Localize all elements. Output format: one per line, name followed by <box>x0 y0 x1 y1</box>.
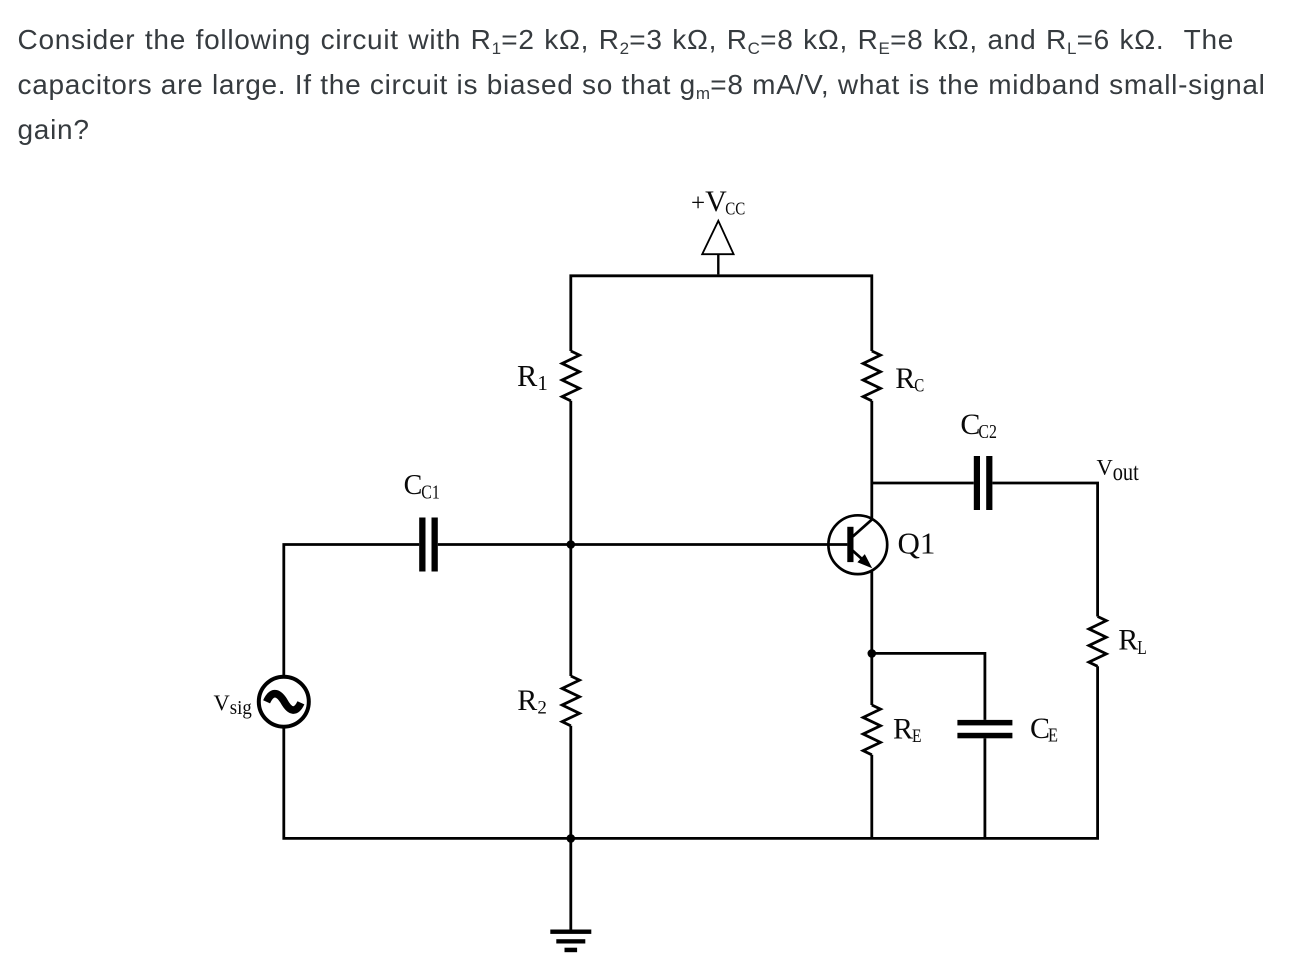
svg-text:R2: R2 <box>517 684 547 719</box>
svg-text:Vsig: Vsig <box>214 690 252 719</box>
svg-text:+VCC: +VCC <box>691 185 745 219</box>
svg-text:CE: CE <box>1030 712 1058 747</box>
svg-text:CC2: CC2 <box>960 408 997 443</box>
svg-text:RL: RL <box>1118 624 1147 659</box>
svg-text:RC: RC <box>895 362 924 396</box>
svg-text:R1: R1 <box>517 359 548 395</box>
svg-text:Vout: Vout <box>1097 455 1139 487</box>
svg-text:RE: RE <box>893 713 922 747</box>
svg-text:Q1: Q1 <box>898 526 936 561</box>
svg-text:CC1: CC1 <box>404 470 440 504</box>
